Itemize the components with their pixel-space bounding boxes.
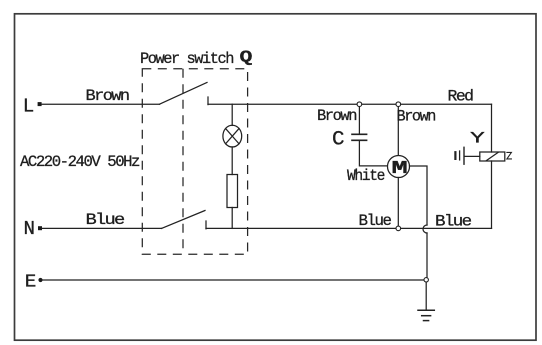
node junction blue/motor — [396, 226, 401, 231]
svg-text:Q: Q — [240, 48, 253, 67]
wire hop over blue wire (no connection) — [423, 225, 427, 233]
wire below E node to ground symbol — [425, 282, 427, 310]
node N terminal — [38, 226, 42, 230]
node E terminal — [38, 278, 42, 282]
wire N to switch — [42, 227, 162, 229]
svg-text:Brown: Brown — [317, 107, 357, 125]
svg-text:Blue: Blue — [435, 213, 471, 231]
switch Q pole 2 fixed contact — [205, 221, 207, 229]
wire E ground line — [43, 279, 427, 281]
svg-text:Power switch: Power switch — [140, 50, 234, 68]
wire capacitor drop — [358, 106, 360, 134]
svg-text:AC220-240V 50Hz: AC220-240V 50Hz — [20, 153, 140, 171]
wire capacitor to motor — [359, 141, 388, 166]
wire motor bottom — [397, 178, 399, 226]
igniter tip mark — [507, 152, 512, 159]
motor M1 — [388, 156, 410, 178]
ground symbol — [418, 309, 434, 311]
switch Q pole 2 (N) blade — [162, 211, 206, 229]
svg-text:Brown: Brown — [397, 108, 436, 126]
node junction E/ground — [424, 278, 428, 282]
svg-text:L: L — [23, 95, 34, 117]
wire motor right to ground drop — [410, 166, 428, 225]
dashed enclosure power switch — [142, 69, 247, 254]
svg-text:White: White — [347, 167, 385, 185]
wire resistor to N line — [231, 208, 233, 229]
svg-text:E: E — [25, 272, 36, 292]
node L terminal — [38, 102, 42, 106]
wire right vertical down to igniter — [491, 104, 493, 152]
svg-text:Brown: Brown — [86, 87, 130, 105]
wire top (brown/red) from switch to right corner — [208, 103, 492, 105]
node junction brown/capacitor — [357, 102, 362, 107]
svg-text:N: N — [24, 218, 34, 240]
node junction brown/motor — [396, 102, 401, 107]
svg-text:C: C — [332, 129, 345, 152]
switch Q pole 1 (L) blade — [160, 83, 208, 105]
lamp EL1 (indicator) — [223, 125, 242, 147]
dashed linkage line between switch poles — [182, 69, 184, 254]
resistor R1 — [227, 175, 238, 208]
wire blue from switch to right — [206, 227, 492, 229]
wire lamp to resistor — [231, 147, 233, 175]
wire lamp drop from top wire — [231, 104, 233, 125]
svg-text:Blue: Blue — [359, 212, 392, 230]
wire motor top — [397, 106, 399, 155]
igniter Y body — [480, 152, 505, 161]
switch Q pole 1 fixed contact — [207, 97, 209, 105]
wire L to switch — [42, 103, 160, 105]
capacitor C — [352, 133, 367, 135]
igniter electrode lead — [464, 155, 479, 157]
wire igniter bottom vertical — [491, 161, 493, 228]
svg-text:M: M — [392, 159, 407, 179]
wire ground drop to E line — [426, 233, 428, 278]
svg-text:Red: Red — [448, 88, 474, 106]
svg-text:Blue: Blue — [86, 211, 125, 229]
igniter electrode plates — [463, 147, 465, 164]
